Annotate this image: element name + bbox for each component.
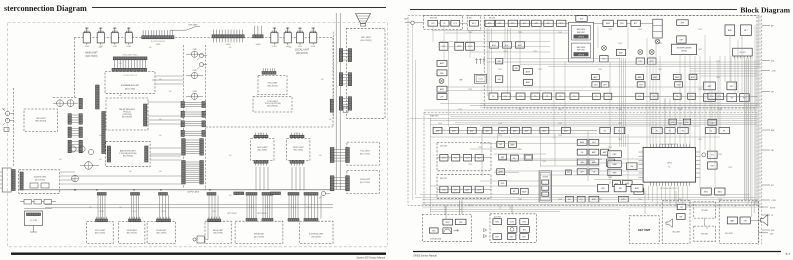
svg-text:J-10: J-10 bbox=[321, 79, 324, 81]
svg-text:DDS UNIT: DDS UNIT bbox=[440, 146, 448, 148]
af row1b block 4 bbox=[665, 127, 676, 133]
dds1 top connector bbox=[254, 135, 268, 138]
svg-text:TX 8V: TX 8V bbox=[716, 77, 720, 79]
ant second row block 2 bbox=[455, 42, 464, 50]
xtal oscillator symbols bbox=[476, 59, 478, 64]
if row block 3 bbox=[516, 93, 525, 100]
svg-text:FIL: FIL bbox=[723, 131, 726, 133]
svg-text:RF UNIT: RF UNIT bbox=[489, 18, 495, 20]
svg-text:REG: REG bbox=[718, 191, 722, 193]
svg-text:J01 J07: J01 J07 bbox=[739, 52, 745, 54]
scrambler connector bbox=[112, 68, 147, 71]
svg-text:J-10: J-10 bbox=[129, 171, 132, 173]
mid column block 2c bbox=[524, 154, 532, 160]
scrambler unit box bbox=[105, 72, 155, 94]
mic connector pair row2 bbox=[339, 73, 342, 86]
af row1b block 1 bbox=[600, 127, 611, 133]
svg-text:TX 8V: TX 8V bbox=[468, 205, 472, 207]
keyer box bbox=[539, 171, 552, 202]
mic connector aux bbox=[330, 99, 333, 112]
sp speaker icon bbox=[666, 219, 672, 228]
if row block 4 bbox=[531, 93, 540, 100]
svg-text:CAT: CAT bbox=[771, 149, 774, 152]
svg-text:FIL: FIL bbox=[492, 96, 495, 98]
mid column block 4 bbox=[499, 181, 507, 186]
svg-text:TX 8V: TX 8V bbox=[598, 69, 602, 71]
af row1 block 1 bbox=[433, 127, 442, 133]
right grid block 3b bbox=[589, 159, 599, 165]
svg-text:ATTN 7XXXX: ATTN 7XXXX bbox=[227, 212, 236, 215]
keyer cells bbox=[542, 180, 549, 184]
mid block b1 bbox=[524, 68, 533, 74]
svg-text:OPTION: OPTION bbox=[578, 37, 585, 39]
pow top connector bbox=[157, 219, 171, 222]
if row block 2 bbox=[501, 93, 510, 100]
svg-text:MIC: MIC bbox=[3, 109, 7, 111]
extra web verticals right bbox=[664, 98, 666, 147]
ext block 1 bbox=[727, 217, 737, 224]
bottom bundle extra bbox=[430, 208, 620, 210]
if mixer 3 bbox=[649, 50, 654, 55]
row y120 blocks bbox=[669, 119, 676, 125]
svg-text:(NO.77XX): (NO.77XX) bbox=[125, 89, 135, 91]
cpu left block 3 bbox=[608, 169, 622, 176]
trunk cable pair row1 bbox=[181, 102, 184, 108]
af row1b block 5 bbox=[678, 127, 689, 133]
svg-text:TX 8V: TX 8V bbox=[718, 109, 722, 111]
rf left verticals bbox=[486, 28, 488, 96]
svg-text:KEYER: KEYER bbox=[543, 177, 549, 179]
dds1 unit box bbox=[251, 138, 274, 160]
dm filter connector left bbox=[96, 85, 100, 109]
first bpf block bbox=[677, 20, 689, 26]
mid small block bbox=[513, 66, 519, 71]
svg-text:VR-B-UNIT: VR-B-UNIT bbox=[360, 179, 371, 181]
cpu left block 2 bbox=[608, 161, 622, 168]
if af unit box bbox=[424, 112, 757, 205]
dc connector J100 bbox=[2, 168, 11, 192]
svg-text:OSC-UNIT: OSC-UNIT bbox=[267, 83, 278, 85]
svg-text:J-10: J-10 bbox=[309, 195, 312, 197]
mid column pair 1b bbox=[509, 142, 517, 148]
dds1 cable to bus bbox=[256, 167, 268, 190]
display cable group2 bbox=[304, 193, 318, 196]
rf top block 9 bbox=[617, 20, 626, 26]
ref row wire bbox=[437, 189, 491, 191]
svg-text:J-10: J-10 bbox=[229, 155, 232, 157]
svg-text:MICROPROCESSOR: MICROPROCESSOR bbox=[677, 47, 693, 49]
below cpu row block 4 bbox=[701, 188, 712, 195]
trunk cable pair row3 bbox=[181, 121, 184, 127]
trunk cable pair row4 bbox=[181, 130, 184, 136]
if horizontal bundle bbox=[480, 102, 757, 104]
sp unit block 2 bbox=[677, 214, 686, 220]
svg-text:SW: SW bbox=[567, 172, 570, 174]
s-display unit box bbox=[300, 221, 334, 243]
svg-text:TX 8V: TX 8V bbox=[558, 109, 562, 111]
connector J1004 bbox=[253, 35, 263, 38]
rf unit box bbox=[484, 16, 757, 108]
left page footer bar bbox=[11, 253, 386, 255]
right lower block 3 bbox=[634, 189, 644, 195]
svg-text:TX 8V: TX 8V bbox=[698, 49, 702, 51]
svg-text:(NO.26XX): (NO.26XX) bbox=[294, 150, 304, 152]
svg-text:TX 8V: TX 8V bbox=[588, 169, 592, 171]
svg-text:PLL: PLL bbox=[454, 158, 457, 160]
trunk right rail bbox=[205, 45, 207, 189]
svg-text:POW CABLE: POW CABLE bbox=[188, 23, 197, 26]
right lower block 1 bbox=[613, 181, 621, 187]
rf top row wire bbox=[484, 22, 653, 24]
ext block 2 bbox=[740, 217, 750, 224]
lpf connector pair row2 bbox=[68, 114, 71, 125]
right mid row block 1 bbox=[704, 94, 716, 102]
vr-b unit box bbox=[118, 222, 144, 244]
svg-text:FIL: FIL bbox=[581, 152, 584, 154]
antenna relay RL1008 bbox=[312, 28, 314, 33]
cable run B bbox=[45, 207, 333, 209]
svg-text:TX 8V: TX 8V bbox=[728, 167, 732, 169]
vr-c top connector bbox=[96, 219, 108, 222]
svg-text:TX 8V: TX 8V bbox=[438, 123, 442, 125]
if row block 6 bbox=[556, 93, 565, 100]
if long row right half bbox=[593, 93, 601, 99]
bus bar extra 1 bbox=[234, 192, 244, 195]
left page interconnect wires bbox=[155, 75, 184, 77]
antenna relay RL1004 bbox=[128, 28, 130, 33]
svg-text:SW: SW bbox=[744, 220, 747, 222]
right grid block 4b bbox=[589, 169, 599, 175]
ant second row block 1 bbox=[439, 42, 448, 50]
svg-text:RAM: RAM bbox=[613, 163, 617, 166]
right grid block 1b bbox=[589, 139, 599, 145]
wire to power cable bbox=[170, 27, 200, 31]
connector J1001 bbox=[142, 36, 174, 39]
main unit top boundary bbox=[74, 37, 333, 39]
rf top block 10 bbox=[631, 20, 640, 26]
phone jack J3 bbox=[5, 118, 9, 122]
svg-text:TX 8V: TX 8V bbox=[698, 89, 702, 91]
cpu ic bbox=[643, 148, 696, 183]
cpu bottom pins bbox=[651, 182, 690, 186]
svg-text:SW: SW bbox=[630, 166, 633, 168]
if mixer 1 bbox=[602, 46, 607, 51]
matching amp option 1 bbox=[572, 25, 591, 40]
ant unit wire bbox=[438, 22, 468, 24]
lcd unit box bbox=[490, 214, 536, 243]
svg-text:ATU: ATU bbox=[469, 17, 472, 20]
svg-text:J-10: J-10 bbox=[89, 207, 92, 209]
tcxo block bbox=[475, 74, 487, 83]
svg-text:TX 8V: TX 8V bbox=[618, 139, 622, 141]
mid block a2 bbox=[495, 76, 502, 83]
svg-text:TX 8V: TX 8V bbox=[518, 199, 522, 201]
ext unit box bbox=[719, 201, 758, 244]
svg-text:SW: SW bbox=[679, 216, 682, 218]
svg-text:ANT: ANT bbox=[404, 18, 407, 21]
right page footer rule bbox=[413, 251, 781, 253]
right header rule bbox=[410, 9, 737, 11]
main unit right boundary bbox=[332, 38, 334, 127]
lcd row1 block 2 bbox=[507, 219, 516, 225]
svg-text:TX 8V: TX 8V bbox=[558, 32, 562, 34]
svg-text:(NO.4XXX): (NO.4XXX) bbox=[35, 121, 46, 123]
connector J1003 bbox=[113, 57, 147, 60]
svg-text:LPF-UNIT: LPF-UNIT bbox=[36, 118, 47, 120]
osc connector bbox=[262, 72, 276, 75]
matching amp option 2 bbox=[572, 43, 591, 58]
af row1b block 2 bbox=[614, 127, 625, 133]
right chassis boundary bbox=[758, 15, 760, 245]
tnc connector pair bbox=[330, 148, 334, 163]
svg-text:TX 8V: TX 8V bbox=[698, 139, 702, 141]
left column block 3 bbox=[437, 86, 447, 92]
below cpu row block 1 bbox=[597, 185, 608, 192]
toroid L3 bbox=[88, 149, 93, 154]
mid block b2 bbox=[524, 79, 533, 85]
lpf connector column row1 bbox=[79, 98, 82, 109]
svg-text:(NO.8XXX): (NO.8XXX) bbox=[311, 237, 321, 239]
mid block c bbox=[616, 49, 625, 55]
svg-text:System 600 Service Manual: System 600 Service Manual bbox=[356, 257, 385, 260]
ant second row block 3 bbox=[466, 42, 475, 50]
svg-text:J-101: J-101 bbox=[272, 46, 276, 48]
svg-text:TX 8V: TX 8V bbox=[716, 61, 720, 63]
svg-text:REF UNIT: REF UNIT bbox=[440, 178, 447, 180]
dds block 1 bbox=[440, 155, 448, 162]
mid zone wires horizontal bbox=[436, 133, 597, 135]
rf fanout wires bbox=[440, 41, 550, 43]
svg-text:SEG: SEG bbox=[495, 222, 499, 224]
mic connector pair row1 bbox=[339, 49, 342, 62]
svg-text:TX 8V: TX 8V bbox=[542, 161, 546, 163]
bus to trunk link bbox=[205, 189, 207, 190]
right grid block 3a bbox=[577, 159, 587, 165]
af row1b block 7 bbox=[719, 127, 730, 133]
lcd row2 block 2 bbox=[507, 234, 516, 240]
left page outer frame bbox=[8, 23, 388, 247]
if mixer block 1 bbox=[600, 56, 608, 62]
dds block 4 bbox=[475, 155, 483, 162]
svg-text:TX 8V: TX 8V bbox=[538, 69, 542, 71]
tcxo unit box bbox=[253, 97, 292, 113]
j01 j07 block bbox=[733, 48, 753, 56]
svg-text:COAX: COAX bbox=[192, 90, 196, 93]
svg-text:TX 8V: TX 8V bbox=[468, 164, 472, 166]
svg-text:1 3 5 7: 1 3 5 7 bbox=[161, 211, 166, 213]
af row1b block 3 bbox=[652, 127, 663, 133]
svg-text:SW: SW bbox=[499, 144, 502, 146]
display arrow bbox=[454, 229, 459, 231]
phone jack trunk 2 bbox=[200, 63, 204, 67]
svg-text:OPTION: OPTION bbox=[578, 54, 585, 56]
svg-text:SP-UNIT: SP-UNIT bbox=[701, 210, 708, 212]
svg-text:KEY-UNIT: KEY-UNIT bbox=[725, 233, 733, 235]
vrb2 connector pair bbox=[330, 176, 334, 191]
matching amp top block bbox=[576, 16, 587, 22]
svg-text:BKL: BKL bbox=[523, 229, 526, 231]
right edge stub lines bbox=[762, 25, 770, 27]
af row1b block 6 bbox=[706, 127, 717, 133]
ant unit block FL01 bbox=[428, 20, 438, 26]
lcd row1 block 3 bbox=[520, 219, 529, 225]
lpf top boundary bbox=[53, 96, 77, 98]
svg-text:J-10: J-10 bbox=[319, 155, 322, 157]
svg-text:J-10: J-10 bbox=[159, 171, 162, 173]
mid column block 2b bbox=[510, 155, 518, 161]
svg-text:(NO.5XXX): (NO.5XXX) bbox=[35, 180, 45, 182]
svg-text:TX 8V: TX 8V bbox=[458, 109, 462, 111]
svg-text:TX 8V: TX 8V bbox=[518, 109, 522, 111]
svg-text:FIL: FIL bbox=[682, 131, 685, 133]
svg-text:CPU: CPU bbox=[667, 163, 672, 165]
between block bbox=[677, 36, 686, 43]
lcd row2 block 3 bbox=[520, 234, 529, 240]
if row extra blocks mid bbox=[592, 82, 600, 87]
svg-text:S-DISPLAY-UNIT: S-DISPLAY-UNIT bbox=[309, 233, 324, 236]
dm filter unit box bbox=[106, 98, 148, 130]
svg-text:SQL: SQL bbox=[579, 199, 583, 201]
svg-text:TX 8V: TX 8V bbox=[503, 51, 507, 53]
right page jack bottom bbox=[322, 192, 326, 196]
mic sub box bbox=[694, 202, 716, 218]
svg-text:OPTION: OPTION bbox=[681, 51, 687, 53]
transformer T5 bbox=[72, 175, 79, 182]
100kfw unit box bbox=[19, 170, 60, 194]
left wire drops bbox=[19, 186, 23, 190]
svg-text:TX 8V: TX 8V bbox=[598, 87, 602, 89]
svg-text:(NO.7XXX): (NO.7XXX) bbox=[156, 233, 166, 235]
svg-text:TX 8V: TX 8V bbox=[658, 43, 662, 45]
sw sub box bbox=[694, 226, 716, 241]
mic jack bbox=[343, 106, 348, 112]
am filter connector left bbox=[107, 146, 110, 162]
svg-text:(NO.26XX): (NO.26XX) bbox=[258, 150, 268, 152]
sp unit block 1 bbox=[677, 204, 686, 209]
svg-text:KEY: KEY bbox=[771, 92, 774, 94]
svg-text:J-10: J-10 bbox=[119, 207, 122, 209]
trunk cable pair row2 bbox=[181, 111, 184, 117]
svg-text:OSC: OSC bbox=[602, 59, 607, 61]
sw-a unit box bbox=[235, 221, 283, 243]
right mid block 2 bbox=[727, 82, 737, 90]
svg-text:TX 8V: TX 8V bbox=[468, 32, 472, 34]
mic jack J2 bbox=[5, 111, 9, 115]
svg-text:(NO.7XXX): (NO.7XXX) bbox=[360, 182, 370, 184]
svg-text:1 3 5 7: 1 3 5 7 bbox=[212, 211, 217, 213]
cpu top pins bbox=[651, 144, 690, 148]
svg-text:MTR: MTR bbox=[446, 222, 451, 224]
svg-text:XTL: XTL bbox=[711, 155, 714, 157]
cpu fan down wires bbox=[649, 186, 688, 205]
svg-text:(NO.7XXX): (NO.7XXX) bbox=[95, 233, 105, 235]
ext speaker bbox=[761, 215, 768, 226]
atu unit box bbox=[467, 16, 481, 31]
svg-text:EXT: EXT bbox=[771, 185, 774, 187]
svg-text:TX 8V: TX 8V bbox=[533, 51, 537, 53]
bottom connecting wires bbox=[444, 205, 446, 214]
cpu xtal circle bbox=[702, 153, 706, 157]
right single block 1 bbox=[565, 170, 571, 175]
af row1 block 3 bbox=[467, 127, 476, 133]
svg-text:+13.8V: +13.8V bbox=[771, 70, 776, 72]
if mixer 2 block bbox=[636, 58, 644, 64]
svg-text:IF/AF UNIT: IF/AF UNIT bbox=[430, 114, 439, 117]
bus bar extra 2 bbox=[271, 192, 281, 195]
svg-text:J-101: J-101 bbox=[311, 46, 315, 48]
key unit box bbox=[629, 216, 659, 244]
rf top row block 2 bbox=[495, 20, 504, 26]
dds block 2 bbox=[452, 155, 460, 162]
trunk left rail bbox=[183, 45, 185, 189]
svg-text:J-10: J-10 bbox=[329, 119, 332, 121]
right bottom stub 1 bbox=[758, 206, 768, 208]
left outer boundary bbox=[13, 88, 15, 167]
ref block 2 bbox=[452, 186, 460, 193]
rf second row blocks bbox=[490, 42, 499, 48]
sub box link wire bbox=[704, 218, 706, 226]
svg-text:4 3 44 43 42 41 8 40 21 7 12: 4 3 44 43 42 41 8 40 21 7 12 bbox=[660, 144, 678, 146]
pow drop connector bbox=[159, 193, 168, 196]
svg-text:J-101: J-101 bbox=[113, 46, 117, 48]
bottom row block 2 bbox=[577, 196, 585, 202]
svg-text:TX 8V: TX 8V bbox=[718, 199, 722, 201]
vr-c unit box bbox=[87, 222, 114, 244]
svg-text:GX600 Service Manual: GX600 Service Manual bbox=[413, 254, 437, 257]
below cpu row block 2 bbox=[614, 185, 626, 192]
svg-text:TX 8V: TX 8V bbox=[658, 69, 662, 71]
svg-text:J-101: J-101 bbox=[127, 46, 131, 48]
lpf unit box bbox=[24, 109, 58, 132]
svg-text:J-1002: J-1002 bbox=[226, 44, 231, 46]
mid column block 2a bbox=[499, 154, 507, 160]
wire web horizontal lower bbox=[498, 158, 643, 160]
ant unit block RL01 bbox=[440, 20, 449, 26]
svg-text:TX 8V: TX 8V bbox=[618, 43, 622, 45]
w cable vertical bundle bbox=[619, 58, 621, 147]
svg-text:SP: SP bbox=[771, 215, 773, 217]
svg-text:TX 8V: TX 8V bbox=[698, 29, 702, 31]
svg-text:1 3 5 7: 1 3 5 7 bbox=[99, 211, 104, 213]
svg-text:DC 13.8V: DC 13.8V bbox=[30, 220, 38, 222]
svg-text:(NO.7XXX): (NO.7XXX) bbox=[127, 233, 137, 235]
sw-a cable group1 bbox=[246, 193, 257, 196]
pow unit box bbox=[147, 222, 175, 244]
right lower block 2 bbox=[622, 181, 632, 187]
svg-text:(NO.2XXX): (NO.2XXX) bbox=[296, 52, 308, 55]
dds2 bottom connector bbox=[290, 161, 304, 164]
svg-text:J-101: J-101 bbox=[85, 46, 89, 48]
antenna relay RL1002 bbox=[100, 28, 102, 33]
wire web horizontal upper bbox=[432, 30, 569, 32]
svg-text:TX 8V: TX 8V bbox=[608, 177, 612, 179]
svg-text:TCXO: TCXO bbox=[478, 79, 483, 81]
dm filter connector right bbox=[144, 104, 147, 126]
sp unit box bbox=[662, 201, 690, 244]
svg-text:TNC-UNIT: TNC-UNIT bbox=[360, 151, 370, 153]
svg-text:J-10: J-10 bbox=[229, 47, 232, 49]
svg-text:(NO.7XXX): (NO.7XXX) bbox=[213, 233, 223, 235]
antenna relay RL1005 bbox=[273, 28, 275, 33]
key jack bbox=[4, 128, 9, 132]
display block 1 bbox=[443, 219, 453, 225]
lcd mid block 2 bbox=[520, 227, 530, 233]
cpu left pins bbox=[639, 152, 644, 177]
svg-text:GND: GND bbox=[771, 230, 775, 232]
svg-text:TX 8V: TX 8V bbox=[498, 135, 502, 137]
svg-text:ANT UNIT: ANT UNIT bbox=[430, 17, 437, 20]
svg-text:J-10: J-10 bbox=[159, 79, 162, 81]
